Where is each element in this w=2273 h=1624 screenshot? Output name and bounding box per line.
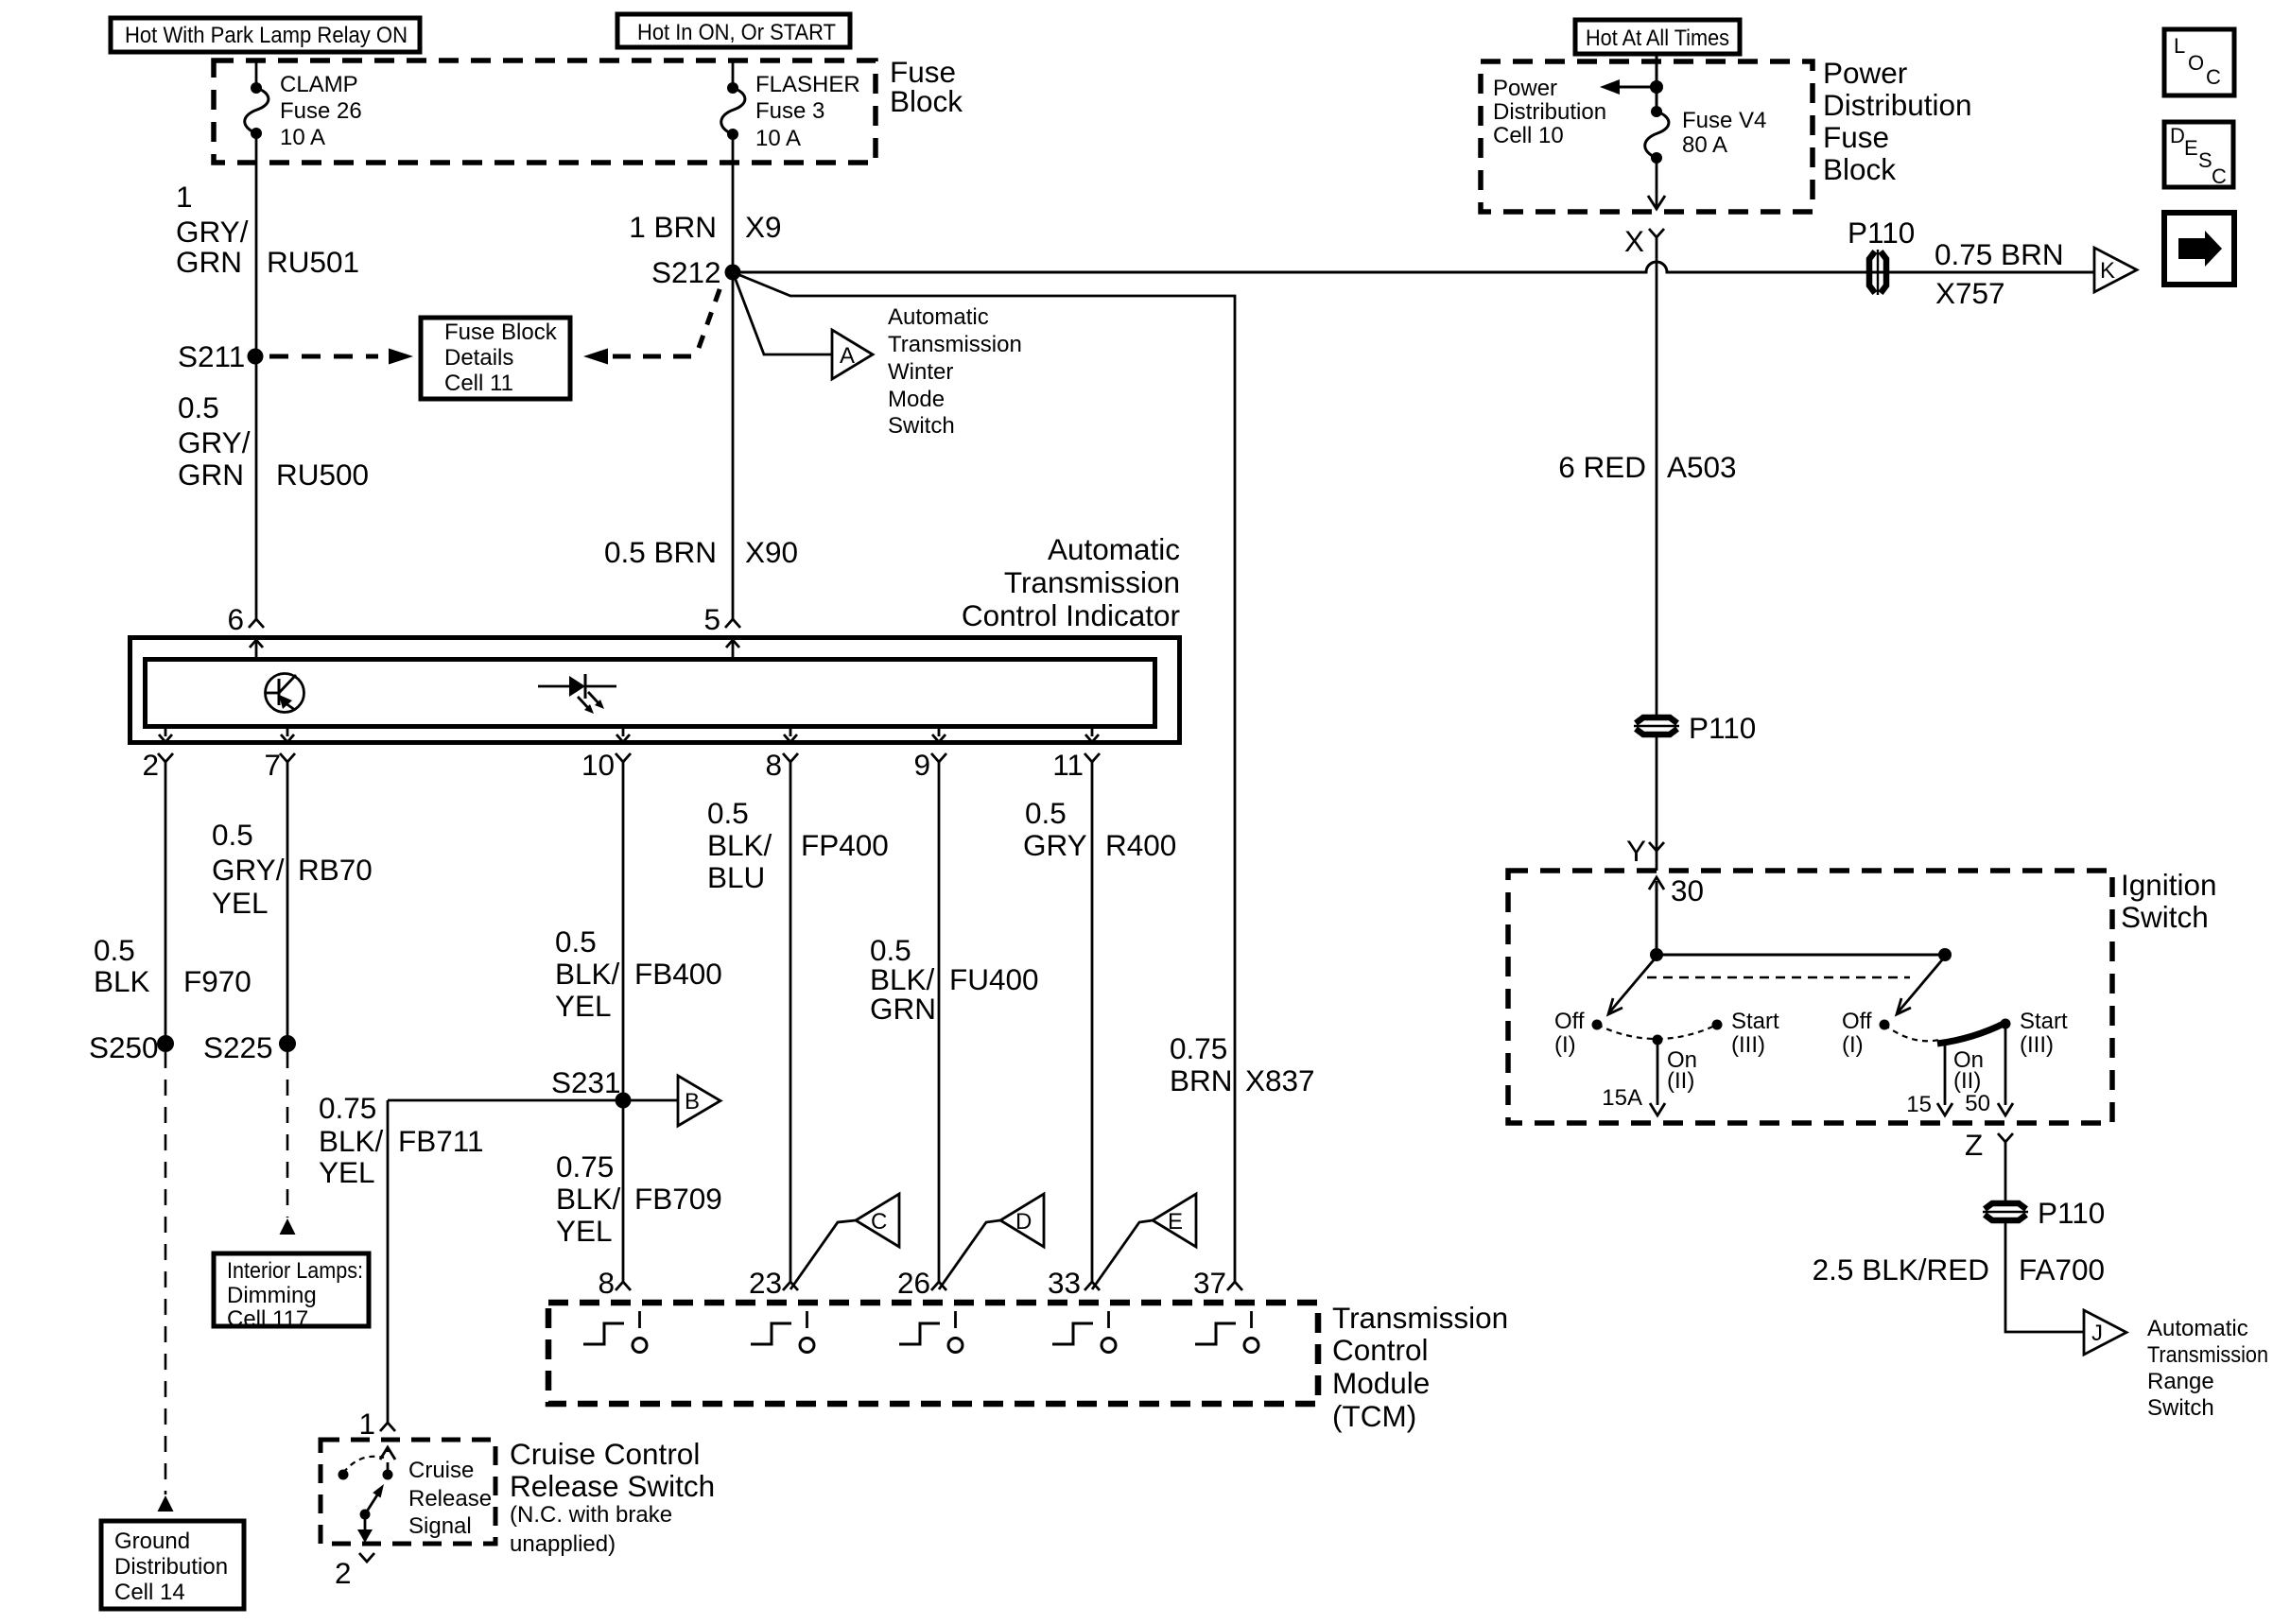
svg-text:L: L xyxy=(2174,34,2185,58)
svg-text:FP400: FP400 xyxy=(801,828,889,862)
svg-text:Hot In ON, Or START: Hot In ON, Or START xyxy=(637,20,836,45)
svg-text:unapplied): unapplied) xyxy=(510,1531,616,1557)
label Cruise Release Signal xyxy=(408,1458,492,1539)
svg-text:9: 9 xyxy=(913,748,930,782)
LED symbol xyxy=(538,674,616,714)
svg-text:FU400: FU400 xyxy=(949,962,1039,996)
connector P110 on FA700 wire xyxy=(1983,1196,2105,1230)
svg-text:A503: A503 xyxy=(1667,450,1737,484)
svg-text:0.5 BRN: 0.5 BRN xyxy=(604,535,717,569)
svg-text:Control Indicator: Control Indicator xyxy=(962,598,1180,632)
svg-text:FB709: FB709 xyxy=(634,1182,722,1216)
component label: Ignition Switch xyxy=(2121,868,2217,934)
wire from fuse block top to CLAMP fuse xyxy=(255,60,258,87)
label 0.5 GRY R400 xyxy=(1023,796,1176,862)
svg-text:BLK/: BLK/ xyxy=(555,957,620,991)
triangle A xyxy=(832,330,873,379)
svg-text:Ignition: Ignition xyxy=(2121,868,2217,902)
header box: Hot In ON, Or START xyxy=(617,14,850,47)
wire FB400 pin 10 to TCM pin 8 xyxy=(616,762,631,1290)
chevron X837 at TCM pin 37 xyxy=(1227,1282,1242,1290)
svg-text:P110: P110 xyxy=(1848,216,1915,250)
svg-text:0.5: 0.5 xyxy=(707,796,749,830)
svg-text:15: 15 xyxy=(1906,1092,1932,1117)
svg-text:Transmission: Transmission xyxy=(1004,565,1180,599)
right ignition bank: Off(I) On(II) Start(III) xyxy=(1842,1009,2068,1117)
ignition internal bus xyxy=(1647,948,1952,977)
svg-text:P110: P110 xyxy=(2038,1196,2105,1230)
svg-text:Power: Power xyxy=(1493,76,1557,101)
TCM input contact pin 33 xyxy=(1052,1311,1116,1353)
wire R400 indicator pin 11 to TCM pin 33 xyxy=(1084,762,1100,1290)
triangle J xyxy=(2084,1310,2126,1355)
svg-text:Transmission: Transmission xyxy=(1332,1301,1508,1335)
label 2.5 BLK/RED FA700 xyxy=(1813,1253,2105,1287)
label 0.5 BLK/YEL FB400 xyxy=(555,924,722,1023)
svg-text:YEL: YEL xyxy=(555,989,612,1023)
off-page arrow box xyxy=(2164,213,2234,285)
svg-text:Switch: Switch xyxy=(2121,900,2209,934)
svg-text:80 A: 80 A xyxy=(1682,132,1727,158)
svg-text:7: 7 xyxy=(264,748,281,782)
label 0.75 BLK/YEL FB709 xyxy=(556,1149,722,1248)
svg-text:Power: Power xyxy=(1823,56,1907,90)
label 0.5 BLK/GRN FU400 xyxy=(870,933,1039,1026)
svg-text:(II): (II) xyxy=(1953,1068,1981,1094)
svg-text:O: O xyxy=(2188,51,2204,75)
label 0.5 BRN X90 xyxy=(604,535,798,569)
svg-text:30: 30 xyxy=(1671,873,1704,907)
svg-text:Interior Lamps:: Interior Lamps: xyxy=(227,1258,363,1284)
TCM input contact pin 37 xyxy=(1195,1311,1258,1353)
wire to J triangle xyxy=(2005,1223,2084,1332)
label Automatic Transmission Winter Mode Switch xyxy=(888,304,1022,439)
cruise switch internals xyxy=(338,1447,396,1562)
label 0.5 GRY/YEL RB70 xyxy=(212,818,373,920)
svg-text:BLK/: BLK/ xyxy=(707,828,772,862)
svg-text:(III): (III) xyxy=(1731,1032,1765,1058)
svg-text:(III): (III) xyxy=(2020,1032,2054,1058)
component label: Fuse Block xyxy=(890,55,963,118)
svg-text:Automatic: Automatic xyxy=(888,304,989,330)
svg-text:1: 1 xyxy=(358,1407,375,1441)
svg-text:15A: 15A xyxy=(1602,1085,1642,1111)
dashed wire S250 to ground ref xyxy=(165,1052,167,1494)
svg-text:10 A: 10 A xyxy=(755,126,801,151)
component label: Power Distribution Fuse Block xyxy=(1823,56,1972,186)
component label: Transmission Control Module (TCM) xyxy=(1332,1301,1508,1433)
svg-text:F970: F970 xyxy=(183,964,252,998)
svg-text:(I): (I) xyxy=(1842,1032,1864,1058)
svg-text:RU500: RU500 xyxy=(276,458,369,492)
wire from Hot At All Times into box xyxy=(1656,54,1658,87)
svg-text:GRN: GRN xyxy=(176,245,242,279)
dashed wire S225 to interior lamps ref xyxy=(286,1052,289,1218)
svg-text:GRY/: GRY/ xyxy=(176,215,249,249)
svg-text:BLK/: BLK/ xyxy=(556,1182,621,1216)
svg-text:(N.C. with brake: (N.C. with brake xyxy=(510,1502,672,1528)
svg-text:2: 2 xyxy=(142,748,159,782)
svg-text:0.5: 0.5 xyxy=(555,924,597,959)
ground ref triangle xyxy=(158,1495,174,1512)
svg-text:YEL: YEL xyxy=(556,1214,613,1248)
node S250 xyxy=(89,1030,174,1064)
label 0.75 BRN X757 xyxy=(1935,237,2064,310)
svg-text:(II): (II) xyxy=(1667,1068,1694,1094)
diagonal to triangle D xyxy=(939,1220,1000,1289)
svg-text:0.75: 0.75 xyxy=(319,1091,376,1125)
svg-text:Cell 10: Cell 10 xyxy=(1493,123,1564,148)
label 0.75 BLK/YEL FB711 xyxy=(319,1091,483,1189)
wire X90 down to pin 5 xyxy=(725,272,740,628)
svg-text:S211: S211 xyxy=(178,339,245,373)
wire X9 down to S212 xyxy=(732,134,735,272)
svg-text:E: E xyxy=(2184,136,2198,160)
wire 6 RED A503 xyxy=(1656,237,1658,715)
svg-text:0.75 BRN: 0.75 BRN xyxy=(1935,237,2064,271)
label 6 RED A503 xyxy=(1558,450,1736,484)
svg-text:6 RED: 6 RED xyxy=(1558,450,1646,484)
svg-text:Details: Details xyxy=(444,345,513,371)
svg-text:Y: Y xyxy=(1626,834,1646,868)
svg-text:X757: X757 xyxy=(1935,276,2005,310)
svg-text:1: 1 xyxy=(176,180,193,214)
svg-text:Cell 14: Cell 14 xyxy=(114,1580,185,1605)
node S231 xyxy=(551,1065,632,1109)
fuse block dashed box xyxy=(214,60,876,163)
diagonal to triangle E xyxy=(1092,1220,1153,1289)
wire Z to P110 xyxy=(2004,1142,2007,1201)
svg-text:CLAMP: CLAMP xyxy=(280,72,358,97)
svg-text:Block: Block xyxy=(1823,152,1896,186)
svg-text:Z: Z xyxy=(1965,1128,1983,1162)
svg-text:11: 11 xyxy=(1052,748,1084,782)
svg-text:Fuse V4: Fuse V4 xyxy=(1682,108,1766,133)
main horizontal wire S212 to K with hop over 6 RED wire xyxy=(733,262,2094,272)
svg-text:23: 23 xyxy=(749,1266,782,1300)
diagonal to triangle C xyxy=(790,1220,856,1289)
Interior Lamps: Dimming Cell 117 box xyxy=(214,1253,369,1332)
fuse FLASHER Fuse 3 10 A xyxy=(721,72,860,151)
svg-text:Start: Start xyxy=(2020,1009,2068,1034)
pin 6 entry arrow xyxy=(250,640,263,659)
svg-text:RB70: RB70 xyxy=(298,853,373,887)
svg-text:Distribution: Distribution xyxy=(1823,88,1972,122)
svg-text:2.5 BLK/RED: 2.5 BLK/RED xyxy=(1813,1253,1989,1287)
TCM input contact pin 8 xyxy=(583,1311,647,1353)
svg-text:S: S xyxy=(2198,148,2212,172)
svg-text:26: 26 xyxy=(897,1266,930,1300)
dashed arrow S211 to Fuse Block Details xyxy=(269,349,413,365)
triangle K xyxy=(2094,248,2137,292)
TCM dashed box xyxy=(548,1303,1318,1404)
Ground Distribution Cell 14 box xyxy=(101,1521,244,1609)
svg-text:Ground: Ground xyxy=(114,1529,190,1554)
svg-text:Winter: Winter xyxy=(888,359,953,385)
label 0.75 BRN X837 xyxy=(1170,1031,1315,1097)
svg-text:Transmission: Transmission xyxy=(2147,1342,2268,1368)
svg-text:Fuse 3: Fuse 3 xyxy=(755,98,824,124)
cruise control release switch dashed box xyxy=(321,1440,495,1544)
svg-text:S231: S231 xyxy=(551,1065,621,1099)
svg-text:Module: Module xyxy=(1332,1366,1430,1400)
svg-text:X9: X9 xyxy=(745,210,782,244)
svg-text:BLU: BLU xyxy=(707,860,765,894)
label 1 GRY/GRN RU501 xyxy=(176,180,359,279)
svg-text:0.5: 0.5 xyxy=(94,933,135,967)
triangle D xyxy=(1000,1194,1044,1247)
svg-text:Hot With Park Lamp Relay ON: Hot With Park Lamp Relay ON xyxy=(125,23,408,48)
svg-text:BRN: BRN xyxy=(1170,1063,1233,1097)
wire P110 to Y xyxy=(1656,737,1658,871)
svg-text:C: C xyxy=(871,1209,887,1235)
rotor arrow right xyxy=(1897,957,1945,1014)
svg-text:(I): (I) xyxy=(1554,1032,1576,1058)
svg-text:Release Switch: Release Switch xyxy=(510,1469,715,1503)
svg-text:Transmission: Transmission xyxy=(888,332,1022,357)
connector X xyxy=(1624,224,1664,258)
connector P110 on 6 RED wire xyxy=(1634,711,1756,745)
triangle B xyxy=(678,1076,720,1126)
svg-text:Switch: Switch xyxy=(2147,1395,2214,1421)
svg-text:D: D xyxy=(1015,1209,1032,1235)
label Automatic Transmission Range Switch xyxy=(2147,1316,2268,1421)
svg-text:Start: Start xyxy=(1731,1009,1779,1034)
wire F970 pin 2 xyxy=(165,762,167,1044)
DESC box xyxy=(2164,122,2233,188)
svg-text:0.5: 0.5 xyxy=(212,818,253,852)
TCM input contact pin 26 xyxy=(899,1311,963,1353)
component label: Cruise Control Release Switch xyxy=(510,1437,715,1557)
ignition switch dashed box xyxy=(1508,871,2112,1123)
TCM input contact pin 23 xyxy=(751,1311,814,1353)
svg-text:0.5: 0.5 xyxy=(1025,796,1067,830)
svg-text:Dimming: Dimming xyxy=(227,1283,317,1308)
svg-text:FB400: FB400 xyxy=(634,957,722,991)
svg-text:Release: Release xyxy=(408,1486,492,1512)
dashed arrow from S212 to Fuse Block Details xyxy=(583,282,722,365)
triangle C xyxy=(856,1194,899,1247)
triangle E xyxy=(1153,1194,1196,1247)
svg-text:RU501: RU501 xyxy=(267,245,359,279)
indicator bottom exit arrows xyxy=(159,728,1099,742)
wire RU501 xyxy=(249,133,264,628)
svg-text:C: C xyxy=(2206,65,2221,89)
svg-text:0.5: 0.5 xyxy=(178,390,219,424)
component label: Automatic Transmission Control Indicator xyxy=(962,532,1180,632)
svg-text:50: 50 xyxy=(1965,1091,1990,1116)
svg-text:Mode: Mode xyxy=(888,387,945,412)
svg-text:2: 2 xyxy=(335,1556,352,1590)
svg-text:S250: S250 xyxy=(89,1030,159,1064)
connector Z xyxy=(1965,1128,2013,1162)
svg-text:C: C xyxy=(2212,164,2227,188)
svg-text:0.75: 0.75 xyxy=(1170,1031,1227,1065)
svg-text:1 BRN: 1 BRN xyxy=(629,210,717,244)
svg-text:Distribution: Distribution xyxy=(1493,99,1606,125)
svg-text:Cruise Control: Cruise Control xyxy=(510,1437,700,1471)
svg-text:S212: S212 xyxy=(651,255,721,289)
terminal 30 arrow into ignition switch xyxy=(1649,873,1704,955)
node S211 xyxy=(178,339,264,373)
pin chevrons below indicator box xyxy=(158,753,1100,762)
wire branch S212 to X837 vertical xyxy=(733,272,1235,1282)
svg-text:BLK: BLK xyxy=(94,964,150,998)
svg-text:GRN: GRN xyxy=(870,992,936,1026)
svg-text:Block: Block xyxy=(890,84,963,118)
pin 5 entry arrow xyxy=(726,640,739,659)
svg-text:8: 8 xyxy=(765,748,782,782)
svg-text:Cruise: Cruise xyxy=(408,1458,474,1483)
svg-text:Cell 11: Cell 11 xyxy=(444,371,513,396)
svg-text:A: A xyxy=(840,343,855,369)
svg-text:FA700: FA700 xyxy=(2019,1253,2105,1287)
svg-text:Off: Off xyxy=(1842,1009,1872,1034)
indicator inner box xyxy=(146,660,1155,727)
interior ref triangle xyxy=(280,1218,296,1235)
svg-text:YEL: YEL xyxy=(212,886,269,920)
svg-text:R400: R400 xyxy=(1105,828,1176,862)
svg-text:GRN: GRN xyxy=(178,458,244,492)
label Power Distribution Cell 10 xyxy=(1493,76,1606,148)
node S225 xyxy=(203,1030,296,1064)
svg-text:Distribution: Distribution xyxy=(114,1554,228,1580)
label 1 BRN X9 xyxy=(629,210,781,244)
svg-text:Fuse 26: Fuse 26 xyxy=(280,98,362,124)
svg-text:X: X xyxy=(1624,224,1644,258)
left ignition bank: Off(I) On(II) Start(III) xyxy=(1554,1009,1779,1115)
svg-text:X837: X837 xyxy=(1245,1063,1315,1097)
svg-text:(TCM): (TCM) xyxy=(1332,1399,1416,1433)
power distribution dashed box xyxy=(1481,61,1813,212)
svg-text:5: 5 xyxy=(703,602,720,636)
label 0.5 GRY/GRN RU500 xyxy=(178,390,369,492)
bottom pin labels 2 7 10 8 9 11 xyxy=(142,748,1084,782)
svg-text:P110: P110 xyxy=(1689,711,1756,745)
svg-text:E: E xyxy=(1168,1209,1183,1235)
node junction with left arrow xyxy=(1600,79,1663,95)
svg-text:Automatic: Automatic xyxy=(1048,532,1180,566)
svg-text:Off: Off xyxy=(1554,1009,1585,1034)
svg-text:D: D xyxy=(2170,124,2185,147)
wire RB70 pin 7 xyxy=(286,762,289,1044)
svg-text:Hot At All Times: Hot At All Times xyxy=(1586,26,1729,51)
svg-text:X90: X90 xyxy=(745,535,798,569)
label 0.5 BLK F970 xyxy=(94,933,252,998)
svg-text:B: B xyxy=(685,1089,700,1114)
svg-text:0.75: 0.75 xyxy=(556,1149,614,1183)
rotor arrow left xyxy=(1608,957,1657,1014)
fuse CLAMP Fuse 26 10 A xyxy=(245,72,362,150)
svg-text:Fuse: Fuse xyxy=(1823,120,1889,154)
svg-text:33: 33 xyxy=(1048,1266,1081,1300)
LOC box xyxy=(2164,29,2234,95)
fuse V4 80 A xyxy=(1645,87,1767,164)
svg-text:Range: Range xyxy=(2147,1369,2214,1394)
svg-text:S225: S225 xyxy=(203,1030,273,1064)
svg-text:K: K xyxy=(2100,258,2115,284)
svg-text:GRY/: GRY/ xyxy=(212,853,285,887)
svg-text:10 A: 10 A xyxy=(280,125,325,150)
svg-text:YEL: YEL xyxy=(319,1155,375,1189)
wire S231 branch to B and left to cruise switch xyxy=(380,1100,678,1431)
svg-text:Switch: Switch xyxy=(888,413,955,439)
svg-text:BLK/: BLK/ xyxy=(319,1124,384,1158)
indicator outer box xyxy=(130,638,1180,743)
svg-text:FLASHER: FLASHER xyxy=(755,72,860,97)
connector P110 on main horizontal wire xyxy=(1848,216,1915,295)
svg-text:J: J xyxy=(2091,1321,2103,1346)
svg-text:Fuse Block: Fuse Block xyxy=(444,320,558,345)
wire FU400 indicator pin 9 to TCM pin 26 xyxy=(931,762,946,1290)
svg-text:FB711: FB711 xyxy=(398,1124,483,1158)
svg-text:Automatic: Automatic xyxy=(2147,1316,2248,1341)
svg-text:10: 10 xyxy=(581,748,615,782)
svg-text:Signal: Signal xyxy=(408,1513,472,1539)
indicator lamp symbol xyxy=(266,674,304,713)
svg-text:Cell 117: Cell 117 xyxy=(227,1306,308,1332)
wire FP400 indicator pin 8 to TCM pin 23 xyxy=(783,762,798,1290)
arrow down to box edge (male pin) xyxy=(1648,158,1665,209)
wire branch S212 to A triangle xyxy=(733,272,832,354)
svg-text:8: 8 xyxy=(598,1266,615,1300)
svg-text:Control: Control xyxy=(1332,1333,1429,1367)
svg-text:GRY/: GRY/ xyxy=(178,425,251,459)
svg-text:37: 37 xyxy=(1193,1266,1226,1300)
svg-text:6: 6 xyxy=(227,602,244,636)
svg-text:GRY: GRY xyxy=(1023,828,1087,862)
label 0.5 BLK/BLU FP400 xyxy=(707,796,889,894)
header box: Hot With Park Lamp Relay ON xyxy=(111,18,420,52)
TCM pin labels xyxy=(598,1266,1226,1300)
Fuse Block Details Cell 11 box xyxy=(421,318,570,399)
header box: Hot At All Times xyxy=(1575,20,1740,54)
connector Y xyxy=(1626,834,1664,868)
node S212 xyxy=(651,255,741,289)
wire from fuse block top to FLASHER fuse xyxy=(732,60,735,87)
